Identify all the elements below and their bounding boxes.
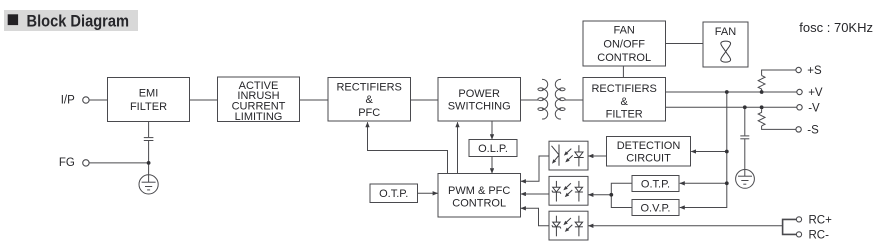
svg-text:I/P: I/P [61, 95, 75, 107]
svg-text:FAN: FAN [613, 25, 634, 37]
svg-text:FAN: FAN [715, 26, 736, 38]
svg-text:ON/OFF: ON/OFF [603, 38, 645, 50]
svg-text:RC+: RC+ [809, 214, 833, 226]
svg-text:RECTIFIERS: RECTIFIERS [591, 83, 656, 95]
svg-text:RC-: RC- [809, 229, 830, 241]
svg-text:fosc : 70KHz: fosc : 70KHz [799, 20, 873, 35]
svg-text:POWER: POWER [458, 88, 500, 100]
svg-text:O.T.P.: O.T.P. [379, 188, 408, 200]
svg-text:LIMITING: LIMITING [235, 111, 283, 123]
svg-text:O.L.P.: O.L.P. [478, 143, 508, 155]
svg-text:-V: -V [808, 102, 820, 114]
svg-text:PFC: PFC [358, 107, 380, 119]
svg-text:-S: -S [807, 124, 819, 136]
svg-text:FILTER: FILTER [606, 108, 643, 120]
svg-text:FILTER: FILTER [130, 101, 167, 113]
svg-text:CONTROL: CONTROL [452, 198, 506, 210]
svg-text:&: & [366, 94, 374, 106]
svg-text:PWM & PFC: PWM & PFC [448, 185, 510, 197]
svg-text:O.V.P.: O.V.P. [641, 202, 671, 214]
svg-text:EMI: EMI [139, 88, 159, 100]
svg-text:Block Diagram: Block Diagram [27, 11, 130, 30]
svg-text:+V: +V [808, 87, 823, 99]
svg-text:O.T.P.: O.T.P. [641, 178, 670, 190]
svg-text:+S: +S [807, 65, 822, 77]
svg-text:&: & [621, 96, 629, 108]
svg-text:CONTROL: CONTROL [597, 52, 651, 64]
svg-text:FG: FG [59, 157, 75, 169]
svg-text:DETECTION: DETECTION [617, 140, 681, 152]
svg-text:SWITCHING: SWITCHING [448, 101, 511, 113]
svg-text:CIRCUIT: CIRCUIT [626, 152, 671, 164]
svg-text:RECTIFIERS: RECTIFIERS [336, 81, 401, 93]
